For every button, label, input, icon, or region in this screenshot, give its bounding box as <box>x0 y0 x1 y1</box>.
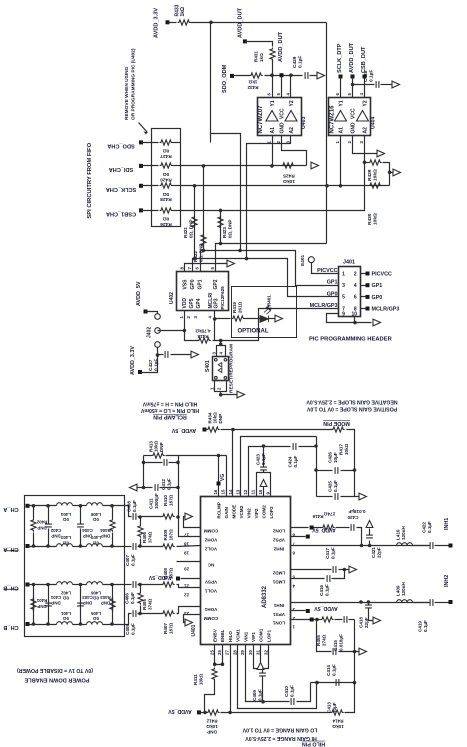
svg-text:VPS2: VPS2 <box>273 537 285 542</box>
svg-text:R403: R403 <box>100 595 111 600</box>
node <box>193 184 197 188</box>
ic U403 NC7WZ07 <box>258 98 302 136</box>
wire <box>383 163 390 186</box>
inductor L404 <box>57 503 73 506</box>
svg-text:LOP1: LOP1 <box>267 630 272 642</box>
svg-text:A2: A2 <box>289 127 295 134</box>
svg-text:0Ω: 0Ω <box>63 541 69 546</box>
wire <box>173 165 181 167</box>
wire <box>103 624 125 626</box>
resistor R434 10k DNP <box>205 429 207 431</box>
svg-text:INH1: INH1 <box>273 603 284 608</box>
svg-text:CR401: CR401 <box>267 295 272 310</box>
power flag AVDD_DUT <box>280 73 284 77</box>
wire <box>390 172 394 174</box>
capacitor C421 22pF <box>369 541 371 546</box>
capacitor C424 0.1uF <box>293 443 296 450</box>
wire <box>221 712 331 714</box>
capacitor C416 0.1uF <box>291 578 325 580</box>
svg-text:R420: R420 <box>160 176 172 182</box>
svg-text:C406: C406 <box>125 593 130 604</box>
wire INH1 line <box>291 602 430 604</box>
svg-text:0Ω: 0Ω <box>93 596 99 601</box>
node <box>388 171 392 175</box>
svg-text:GAIN: GAIN <box>224 506 229 518</box>
svg-text:10: 10 <box>352 311 358 317</box>
resistor R416 274ohm <box>314 527 322 529</box>
ground <box>392 81 400 88</box>
wire VIN2 line <box>249 447 291 497</box>
wire <box>103 505 125 507</box>
svg-text:GP1: GP1 <box>327 280 338 286</box>
power flag AVDD_3.3V <box>138 370 142 374</box>
wire <box>299 446 317 448</box>
node <box>110 504 114 508</box>
svg-text:AVDD_3.3V: AVDD_3.3V <box>154 8 160 38</box>
node <box>228 711 232 715</box>
svg-text:261Ω: 261Ω <box>237 301 242 313</box>
node <box>219 339 223 343</box>
svg-text:3: 3 <box>342 283 345 289</box>
svg-text:RESET/REPROGRAM: RESET/REPROGRAM <box>229 344 235 393</box>
svg-text:AVDD_3.3V: AVDD_3.3V <box>130 346 136 375</box>
svg-text:RCLAMP PIN: RCLAMP PIN <box>153 414 187 420</box>
svg-text:0.1µF: 0.1µF <box>423 620 428 632</box>
pad VG <box>217 482 221 486</box>
wire <box>345 683 355 713</box>
svg-text:AVDD_5V: AVDD_5V <box>171 427 196 433</box>
wire <box>28 505 57 507</box>
svg-text:2: 2 <box>354 271 357 277</box>
svg-text:GP0: GP0 <box>327 291 338 297</box>
svg-text:1kΩ: 1kΩ <box>259 53 264 62</box>
node <box>219 209 223 213</box>
node <box>176 515 180 519</box>
wire pin4 MCLR <box>214 311 216 341</box>
node <box>314 468 318 472</box>
svg-text:C405: C405 <box>125 624 130 635</box>
svg-text:COM1: COM1 <box>259 628 264 642</box>
pad SDO_CHA <box>139 140 143 144</box>
svg-text:C423: C423 <box>256 454 261 465</box>
pad CH_B- <box>26 583 30 587</box>
svg-text:U403: U403 <box>301 116 307 129</box>
svg-text:R425: R425 <box>283 173 295 179</box>
ic U404 NC7WZ16 <box>329 98 371 136</box>
wire <box>282 136 307 166</box>
capacitor C418 22pF <box>368 603 370 605</box>
resistor R404 DNP <box>112 506 114 519</box>
svg-text:RCLMP: RCLMP <box>216 502 221 518</box>
testpoint E401 <box>308 257 314 263</box>
wire VCM2 line <box>241 437 317 497</box>
svg-text:0.1µF: 0.1µF <box>257 689 262 701</box>
wire <box>141 185 159 187</box>
svg-text:LO GAIN RANGE = 0V TO 1.0V: LO GAIN RANGE = 0V TO 1.0V <box>242 727 317 733</box>
svg-text:AVDD_5V: AVDD_5V <box>136 281 142 306</box>
ground COM1 <box>260 645 262 663</box>
wire CSB1 net <box>181 163 365 211</box>
svg-text:VPSV: VPSV <box>204 579 217 584</box>
node <box>32 622 36 626</box>
wire <box>245 42 273 47</box>
pad SDO_ODM <box>230 74 234 78</box>
ic U402 PIC12F629 <box>177 272 229 311</box>
svg-text:C408: C408 <box>127 501 132 512</box>
svg-text:PIC12F629: PIC12F629 <box>220 286 225 310</box>
svg-text:VCM2: VCM2 <box>239 505 244 518</box>
node <box>217 454 221 458</box>
svg-text:L406: L406 <box>90 590 101 595</box>
node <box>353 681 357 685</box>
svg-text:14: 14 <box>228 489 233 494</box>
capacitor C408 0.1uF <box>125 506 132 517</box>
svg-text:0.1µF: 0.1µF <box>331 664 336 676</box>
inductor L410 120nH <box>397 543 413 546</box>
wire <box>73 505 87 507</box>
svg-text:AD8332: AD8332 <box>262 585 268 608</box>
svg-text:GND: GND <box>351 122 357 134</box>
svg-text:0Ω: 0Ω <box>93 541 99 546</box>
svg-text:0.1µF: 0.1µF <box>297 56 303 68</box>
node <box>353 468 357 472</box>
wire <box>233 75 251 77</box>
wire <box>141 348 158 373</box>
resistor R405 374ohm <box>140 585 142 592</box>
svg-text:C413: C413 <box>327 702 332 713</box>
svg-text:25: 25 <box>209 650 214 655</box>
svg-text:0.1µF: 0.1µF <box>293 455 298 467</box>
svg-text:GND: GND <box>280 122 286 134</box>
wire <box>435 545 449 547</box>
power flag AVDD_5V <box>144 310 148 314</box>
svg-text:R422: R422 <box>193 251 198 262</box>
svg-text:VOH2: VOH2 <box>204 537 217 542</box>
svg-text:0.1µF: 0.1µF <box>130 554 135 566</box>
wire VSS to ground <box>185 264 227 272</box>
ground <box>359 493 367 500</box>
resistor R422 0ohm DNP <box>203 166 205 251</box>
svg-text:R421: R421 <box>183 227 188 238</box>
junction <box>310 526 314 530</box>
resistor R428 0ohm <box>160 183 173 188</box>
wire <box>312 263 339 274</box>
wire VCM1 <box>238 645 317 709</box>
svg-text:DNP: DNP <box>101 533 110 538</box>
svg-text:1000pF: 1000pF <box>154 493 159 509</box>
resistor R417 10k <box>233 429 333 431</box>
svg-text:R402: R402 <box>36 519 47 524</box>
wire <box>210 23 212 143</box>
node <box>363 161 367 165</box>
wire <box>290 76 292 98</box>
capacitor C402 DNP <box>48 506 50 524</box>
svg-text:HILO PIN = H = ±75mV: HILO PIN = H = ±75mV <box>142 400 197 406</box>
svg-text:0.1µF: 0.1µF <box>289 685 294 697</box>
wire VDD net <box>158 311 185 331</box>
svg-text:SDO_ODM: SDO_ODM <box>222 64 228 93</box>
svg-text:C427: C427 <box>148 359 154 371</box>
svg-text:R404: R404 <box>100 528 111 533</box>
pad GP1 <box>361 285 367 287</box>
resistor R429 10k <box>365 162 369 164</box>
svg-text:E401: E401 <box>300 254 306 266</box>
svg-text:C404: C404 <box>82 528 93 533</box>
wire <box>413 545 429 547</box>
svg-text:DNP: DNP <box>207 730 217 735</box>
wire rail left <box>143 456 145 488</box>
node <box>262 444 266 448</box>
node <box>203 711 207 715</box>
svg-text:VDD: VDD <box>182 298 188 309</box>
pad VPSV AVDD_5V <box>181 578 201 580</box>
svg-text:0.1µF: 0.1µF <box>324 584 329 596</box>
svg-text:AVDD_DUT: AVDD_DUT <box>349 42 355 73</box>
svg-text:10kΩ: 10kΩ <box>198 673 203 685</box>
svg-text:SCLK_CHA: SCLK_CHA <box>106 186 136 192</box>
svg-text:DNP: DNP <box>51 600 60 605</box>
svg-text:10µF: 10µF <box>333 452 338 463</box>
svg-text:GP4: GP4 <box>196 298 202 308</box>
svg-text:R428: R428 <box>160 196 172 202</box>
resistor R410 187ohm <box>141 516 163 518</box>
wire <box>177 517 201 537</box>
connector J401 <box>339 267 361 317</box>
box SPI series resistors <box>152 129 181 227</box>
svg-text:L403: L403 <box>60 535 71 540</box>
svg-text:10kΩ: 10kΩ <box>372 169 378 181</box>
capacitor C417 0.1uF <box>291 569 332 571</box>
capacitor C407 0.1uF <box>125 546 132 548</box>
svg-text:23: 23 <box>184 611 189 616</box>
svg-text:10kΩ: 10kΩ <box>344 443 349 455</box>
node <box>202 164 206 168</box>
ground COMM24 <box>184 615 201 623</box>
svg-text:U401: U401 <box>191 624 197 636</box>
svg-text:INH2: INH2 <box>444 575 450 587</box>
svg-text:0Ω, DNP: 0Ω, DNP <box>227 220 232 239</box>
wire LON1 <box>291 619 315 621</box>
node <box>202 249 206 253</box>
svg-text:19: 19 <box>184 551 189 556</box>
svg-text:SCLK_DTP: SCLK_DTP <box>337 43 343 73</box>
wire <box>349 619 355 621</box>
node <box>343 568 347 572</box>
pad CH_A- <box>26 544 30 548</box>
svg-text:ENBV: ENBV <box>213 628 218 642</box>
svg-text:C424: C424 <box>288 456 293 467</box>
svg-text:11: 11 <box>251 489 256 494</box>
resistor R420 0ohm <box>160 163 173 168</box>
svg-text:AVDD_5V: AVDD_5V <box>168 708 192 714</box>
wire RCLMP pin <box>218 456 220 497</box>
svg-text:C420: C420 <box>347 515 358 520</box>
svg-text:R401: R401 <box>36 598 47 603</box>
svg-text:R426: R426 <box>160 221 172 227</box>
svg-text:C411: C411 <box>149 498 154 509</box>
node <box>315 681 319 685</box>
resistor R407 187ohm <box>141 613 163 615</box>
resistor R411 10k <box>212 668 217 681</box>
ground <box>317 72 325 79</box>
svg-text:GP3: GP3 <box>214 298 220 308</box>
svg-text:0Ω: 0Ω <box>163 171 170 177</box>
node <box>193 257 197 261</box>
node <box>183 329 187 333</box>
wire <box>364 136 366 163</box>
capacitor C427 0.1uF <box>158 354 164 356</box>
svg-text:120nH: 120nH <box>401 582 406 596</box>
svg-text:HILO PIN: HILO PIN <box>302 740 325 746</box>
svg-text:POWER DOWN ENABLE: POWER DOWN ENABLE <box>24 677 89 683</box>
svg-text:0.018µF: 0.018µF <box>338 634 343 651</box>
wire <box>177 546 201 547</box>
svg-text:22pF: 22pF <box>364 617 369 628</box>
svg-text:MODE PIN: MODE PIN <box>323 420 350 426</box>
svg-text:R410: R410 <box>163 495 168 506</box>
svg-text:R455: R455 <box>316 635 321 646</box>
svg-text:MODE: MODE <box>231 505 236 519</box>
resistor R408 187ohm <box>141 584 163 586</box>
wire <box>191 22 327 24</box>
svg-text:L410: L410 <box>396 529 401 540</box>
wire <box>269 318 277 320</box>
node <box>46 622 50 626</box>
node <box>142 461 146 465</box>
svg-text:10kΩ: 10kΩ <box>206 724 218 729</box>
wire rail from R433 <box>326 23 328 244</box>
resistor R430 10k <box>369 183 382 188</box>
node <box>156 353 160 357</box>
capacitor C426 10uF <box>317 470 333 472</box>
pad CH_B <box>26 622 30 626</box>
wire <box>139 123 148 133</box>
svg-text:C429: C429 <box>292 56 298 68</box>
wire NC <box>177 561 201 563</box>
node <box>325 184 329 188</box>
svg-text:DNP: DNP <box>83 600 92 605</box>
svg-text:L404: L404 <box>60 512 71 517</box>
node <box>231 428 235 432</box>
wire <box>221 429 233 431</box>
capacitor C409 0.1uF <box>262 669 264 673</box>
svg-text:10kΩ: 10kΩ <box>372 213 378 225</box>
node <box>142 486 146 490</box>
capacitor C415 0.018uF <box>335 619 343 621</box>
svg-text:C428: C428 <box>363 70 369 82</box>
wire <box>73 624 87 626</box>
buffer B <box>285 111 297 122</box>
svg-text:R432: R432 <box>247 85 258 90</box>
capacitor C422 0.1uF <box>430 542 433 549</box>
node <box>213 662 217 666</box>
capacitor C425 0.1uF <box>317 496 333 498</box>
wire VPS rail <box>354 620 356 683</box>
svg-text:J401: J401 <box>343 260 355 266</box>
svg-text:DNP: DNP <box>101 600 110 605</box>
svg-text:A1: A1 <box>339 127 345 134</box>
svg-text:15: 15 <box>221 489 226 494</box>
svg-text:R409: R409 <box>163 529 168 540</box>
svg-text:26: 26 <box>217 650 222 655</box>
svg-text:C414: C414 <box>326 665 331 676</box>
resistor R421 0ohm DNP <box>194 186 196 259</box>
svg-text:SPI CIRCUITRY FROM FIFO: SPI CIRCUITRY FROM FIFO <box>87 142 93 218</box>
svg-text:DNP: DNP <box>37 525 46 530</box>
svg-text:274Ω: 274Ω <box>324 511 336 516</box>
svg-text:NC7WZ07: NC7WZ07 <box>258 105 264 134</box>
svg-text:VIP1: VIP1 <box>251 632 256 642</box>
svg-text:C416: C416 <box>319 585 324 596</box>
svg-text:VSS: VSS <box>183 279 189 290</box>
wire <box>347 430 355 497</box>
resistor R431 1k <box>270 48 275 61</box>
svg-text:R418: R418 <box>197 334 208 339</box>
ground left <box>137 487 144 489</box>
svg-text:C422: C422 <box>422 522 427 533</box>
node <box>79 504 83 508</box>
node <box>261 700 265 704</box>
switch S401 reset <box>220 341 222 346</box>
wire GAIN pin <box>226 456 228 497</box>
capacitor C411 1000pF <box>144 487 153 489</box>
svg-text:DNP: DNP <box>159 442 164 452</box>
svg-text:0.1µF: 0.1µF <box>330 547 335 559</box>
ground <box>377 150 385 157</box>
svg-text:DNP: DNP <box>83 533 92 538</box>
wire <box>173 210 181 212</box>
svg-text:28: 28 <box>232 650 237 655</box>
node <box>138 544 142 548</box>
svg-text:R408: R408 <box>163 568 168 579</box>
resistor R423 0ohm DNP <box>220 211 222 244</box>
inductor L402 <box>57 582 73 585</box>
svg-text:187Ω: 187Ω <box>168 622 173 634</box>
svg-text:C412: C412 <box>161 479 166 490</box>
pad SDI_CHA <box>139 164 143 168</box>
capacitor C419 0.1uF <box>430 599 433 606</box>
svg-text:1kΩ: 1kΩ <box>180 7 186 17</box>
svg-text:187Ω: 187Ω <box>168 494 173 506</box>
svg-text:MCLR/GP3: MCLR/GP3 <box>310 303 338 309</box>
power flag AVDD_DUT <box>243 39 247 43</box>
svg-text:0.1µF: 0.1µF <box>427 521 432 533</box>
svg-text:LON1: LON1 <box>272 620 285 625</box>
svg-text:30: 30 <box>248 650 253 655</box>
svg-text:120nH: 120nH <box>401 526 406 540</box>
wire <box>247 136 291 259</box>
node <box>289 73 293 77</box>
ground <box>359 648 367 655</box>
inductor L409 120nH <box>397 600 413 603</box>
svg-text:GP5: GP5 <box>189 298 195 308</box>
svg-text:R431: R431 <box>254 51 259 62</box>
svg-text:R412: R412 <box>206 719 217 724</box>
wire INH2 line <box>291 545 430 547</box>
resistor R413 10k DNP <box>152 453 165 458</box>
svg-text:GP1: GP1 <box>372 283 383 289</box>
svg-text:10: 10 <box>258 489 263 494</box>
svg-text:(0V TO 1V = DISABLE POWER): (0V TO 1V = DISABLE POWER) <box>17 667 93 673</box>
inductor L401 <box>57 622 73 625</box>
wire rail <box>316 437 318 497</box>
ground COM2 <box>263 487 265 497</box>
node <box>79 622 83 626</box>
node <box>270 164 274 168</box>
capacitor C410 0.1uF <box>291 698 294 705</box>
svg-text:0Ω: 0Ω <box>93 517 99 522</box>
capacitor C404 DNP <box>80 506 82 524</box>
